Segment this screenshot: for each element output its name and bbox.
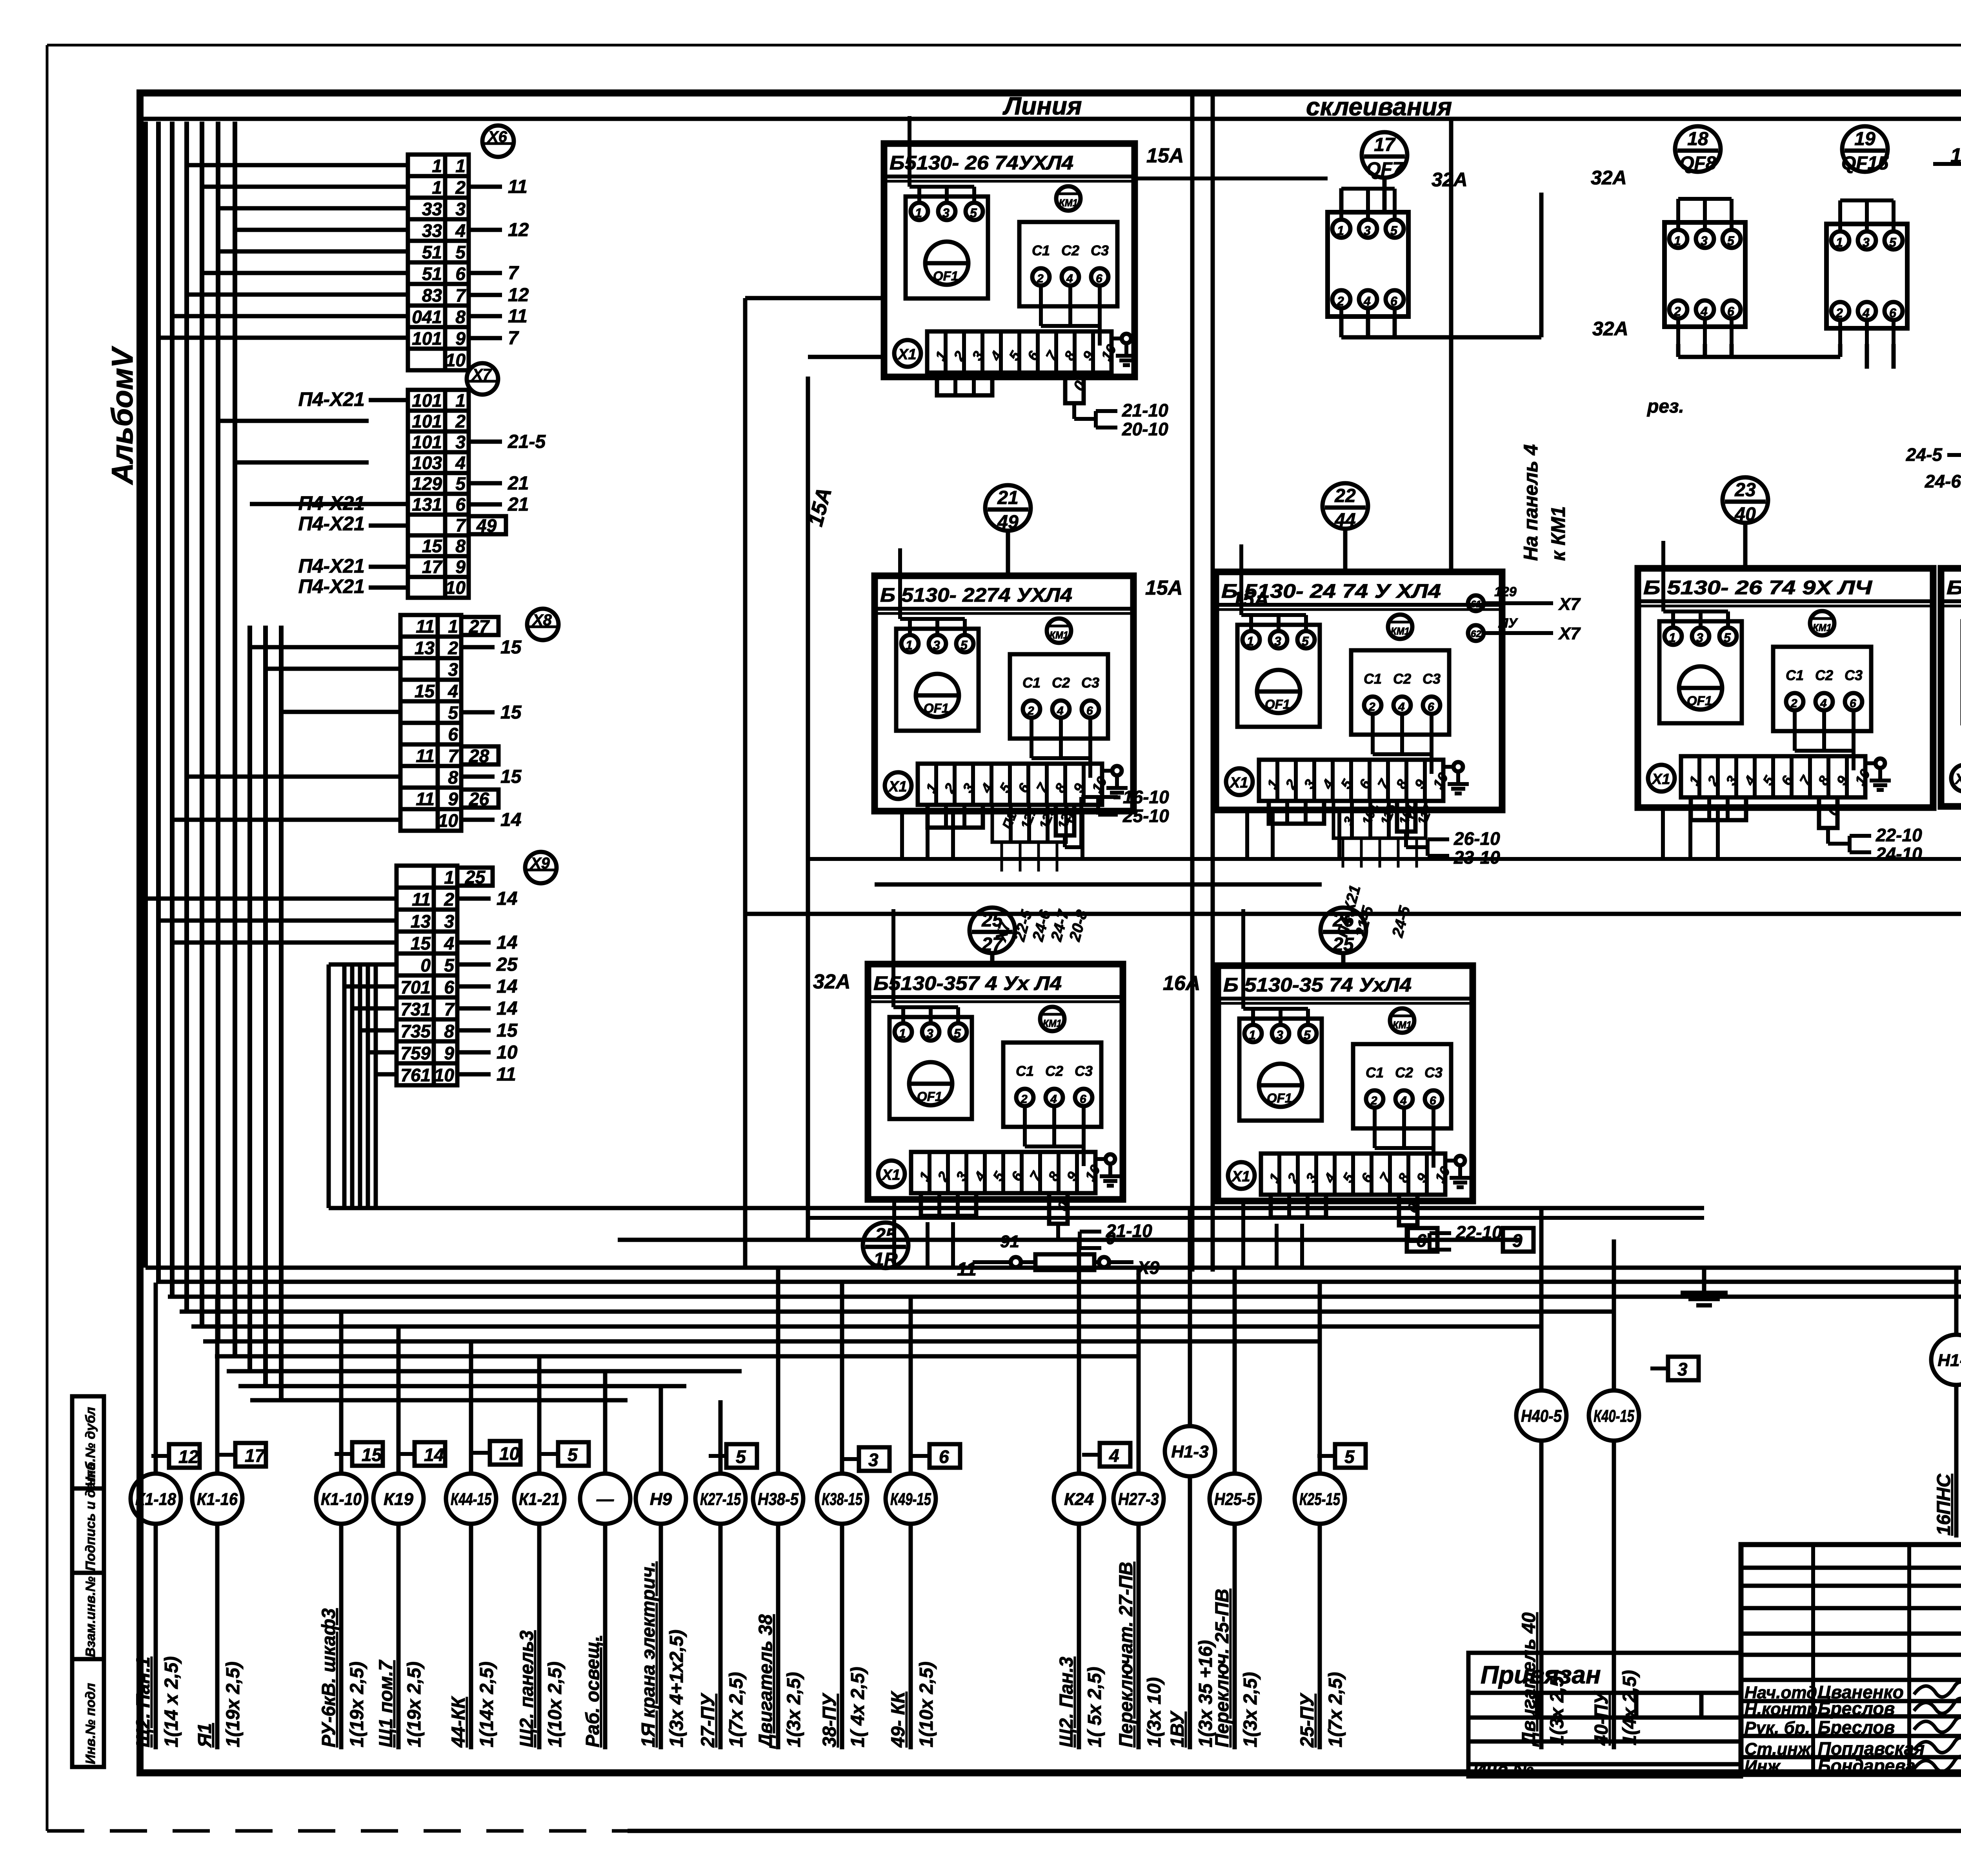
svg-text:15: 15 <box>500 702 522 723</box>
svg-text:С2: С2 <box>1393 671 1411 687</box>
svg-text:1: 1 <box>455 390 466 411</box>
svg-text:7: 7 <box>508 263 519 284</box>
svg-text:27: 27 <box>981 934 1004 955</box>
svg-text:21-5: 21-5 <box>508 431 546 452</box>
svg-text:1Я крана электрич.: 1Я крана электрич. <box>638 1561 659 1747</box>
svg-text:13: 13 <box>415 638 435 658</box>
svg-text:Н1-7: Н1-7 <box>1937 1351 1961 1370</box>
svg-text:Бондарева: Бондарева <box>1818 1756 1916 1776</box>
svg-text:101: 101 <box>412 432 442 452</box>
svg-text:КМ1: КМ1 <box>1050 629 1068 641</box>
svg-text:Н1-3: Н1-3 <box>1171 1442 1208 1461</box>
svg-text:3: 3 <box>942 206 950 220</box>
svg-text:15: 15 <box>415 681 435 701</box>
svg-text:2: 2 <box>1037 272 1044 285</box>
svg-text:6: 6 <box>448 724 458 744</box>
svg-text:4: 4 <box>448 681 458 701</box>
svg-text:Б5130-357 4 Ух Л4: Б5130-357 4 Ух Л4 <box>873 972 1062 994</box>
svg-text:11: 11 <box>416 616 435 637</box>
svg-text:С3: С3 <box>1081 675 1099 691</box>
svg-text:83: 83 <box>422 285 442 306</box>
svg-text:Щ2. Пан.3: Щ2. Пан.3 <box>1056 1657 1077 1747</box>
svg-text:24-10: 24-10 <box>1876 844 1922 864</box>
svg-text:QF1: QF1 <box>1267 1091 1292 1105</box>
svg-text:16ПНС: 16ПНС <box>1934 1473 1954 1536</box>
svg-text:5: 5 <box>736 1447 746 1467</box>
svg-text:7: 7 <box>448 746 459 766</box>
svg-text:7: 7 <box>455 285 466 306</box>
svg-text:6: 6 <box>1430 1094 1436 1107</box>
svg-text:3: 3 <box>444 911 454 932</box>
svg-text:С1: С1 <box>1022 675 1041 691</box>
svg-text:П4-Х21: П4-Х21 <box>298 555 365 577</box>
svg-text:1: 1 <box>1337 224 1344 238</box>
svg-text:1(19х 2,5): 1(19х 2,5) <box>404 1661 425 1747</box>
svg-text:Х7: Х7 <box>471 366 492 383</box>
svg-text:33: 33 <box>422 220 442 241</box>
svg-text:22: 22 <box>1334 486 1356 506</box>
svg-text:10: 10 <box>446 350 466 370</box>
svg-text:Н38-5: Н38-5 <box>758 1490 799 1509</box>
svg-text:Х7: Х7 <box>1558 595 1581 614</box>
svg-text:32А: 32А <box>1592 318 1628 340</box>
svg-text:2: 2 <box>455 411 466 431</box>
svg-text:3: 3 <box>926 1026 933 1041</box>
svg-text:731: 731 <box>400 999 431 1019</box>
svg-text:101: 101 <box>412 328 442 349</box>
svg-text:20-10: 20-10 <box>1122 419 1168 439</box>
svg-text:25-ПУ: 25-ПУ <box>1297 1692 1318 1748</box>
svg-text:3: 3 <box>1276 1028 1283 1042</box>
svg-text:к КМ1: к КМ1 <box>1547 506 1569 561</box>
svg-text:1ВУ: 1ВУ <box>1167 1710 1188 1747</box>
svg-text:9: 9 <box>448 789 458 809</box>
svg-text:1(3х 2,5): 1(3х 2,5) <box>1240 1672 1261 1747</box>
svg-text:8: 8 <box>455 307 466 327</box>
svg-text:С3: С3 <box>1423 671 1441 687</box>
svg-text:Взам.инв.№: Взам.инв.№ <box>83 1576 98 1657</box>
svg-text:26: 26 <box>469 789 489 809</box>
svg-text:П4-Х21: П4-Х21 <box>298 513 365 535</box>
svg-text:15: 15 <box>411 933 431 953</box>
svg-text:6: 6 <box>1889 306 1896 320</box>
svg-text:15: 15 <box>497 1020 518 1041</box>
svg-text:3: 3 <box>868 1450 879 1470</box>
svg-text:5: 5 <box>1302 634 1309 648</box>
svg-text:25-10: 25-10 <box>1122 806 1169 826</box>
svg-text:QF1: QF1 <box>917 1089 942 1104</box>
svg-text:16А: 16А <box>1163 972 1200 995</box>
svg-text:2: 2 <box>455 177 466 198</box>
svg-text:Б5130- 26 74УХЛ4: Б5130- 26 74УХЛ4 <box>890 152 1073 174</box>
svg-text:9: 9 <box>455 557 466 577</box>
svg-text:6: 6 <box>455 494 466 515</box>
svg-text:24-6: 24-6 <box>1925 471 1961 491</box>
svg-text:21-10: 21-10 <box>1122 400 1168 420</box>
svg-text:Ст.инж.: Ст.инж. <box>1745 1740 1815 1759</box>
svg-text:6: 6 <box>939 1447 949 1467</box>
svg-text:4: 4 <box>1109 1445 1119 1466</box>
svg-text:5: 5 <box>970 206 977 220</box>
svg-text:С2: С2 <box>1045 1063 1063 1079</box>
svg-text:6: 6 <box>455 264 466 284</box>
svg-text:5: 5 <box>568 1445 578 1465</box>
svg-text:25: 25 <box>496 954 518 975</box>
svg-text:Н25-5: Н25-5 <box>1214 1490 1255 1509</box>
svg-text:С3: С3 <box>1845 667 1863 683</box>
svg-text:5: 5 <box>1724 631 1731 645</box>
svg-text:Х1: Х1 <box>1651 771 1670 788</box>
svg-text:Х1: Х1 <box>1231 1168 1250 1185</box>
svg-text:1: 1 <box>455 156 466 176</box>
svg-text:9: 9 <box>444 1043 454 1063</box>
svg-text:14: 14 <box>424 1445 444 1465</box>
svg-text:4: 4 <box>1862 306 1870 320</box>
svg-text:1(3х 2,5): 1(3х 2,5) <box>784 1672 804 1747</box>
svg-text:5: 5 <box>1344 1447 1355 1467</box>
svg-text:2: 2 <box>1674 304 1681 318</box>
svg-text:101: 101 <box>412 390 442 411</box>
svg-text:Линия: Линия <box>1002 92 1082 120</box>
svg-text:25: 25 <box>465 867 486 887</box>
svg-text:1(7х 2,5): 1(7х 2,5) <box>1325 1672 1346 1747</box>
svg-text:Х1: Х1 <box>881 1167 900 1183</box>
svg-text:—: — <box>596 1490 614 1509</box>
svg-text:15: 15 <box>422 536 443 556</box>
svg-text:К1-18: К1-18 <box>135 1490 176 1509</box>
svg-text:5: 5 <box>960 638 968 652</box>
svg-text:С2: С2 <box>1815 667 1833 683</box>
svg-text:3: 3 <box>1696 631 1703 645</box>
svg-text:С1: С1 <box>1016 1063 1034 1079</box>
svg-text:4: 4 <box>455 220 466 241</box>
svg-text:44: 44 <box>1334 510 1355 531</box>
svg-text:5: 5 <box>455 242 466 262</box>
svg-text:ЛУ: ЛУ <box>1498 616 1518 631</box>
svg-text:49- КК: 49- КК <box>888 1690 909 1748</box>
svg-text:14: 14 <box>497 888 517 909</box>
svg-text:1(3х 4+1х2,5): 1(3х 4+1х2,5) <box>666 1630 687 1747</box>
svg-text:11: 11 <box>497 1064 516 1085</box>
svg-text:3: 3 <box>1364 224 1371 238</box>
svg-text:6: 6 <box>1086 704 1093 717</box>
svg-text:62: 62 <box>1471 629 1481 639</box>
svg-text:6: 6 <box>1390 294 1397 308</box>
svg-text:1( 5х 2,5): 1( 5х 2,5) <box>1084 1667 1105 1747</box>
svg-text:24-5: 24-5 <box>1906 444 1943 465</box>
svg-text:1( 4х 2,5): 1( 4х 2,5) <box>848 1667 868 1747</box>
svg-text:19: 19 <box>1854 129 1876 149</box>
svg-text:Инв.№ подл: Инв.№ подл <box>83 1683 98 1764</box>
svg-text:QF1: QF1 <box>924 701 949 715</box>
svg-text:Б 5130- 22 74 Ух Л4: Б 5130- 22 74 Ух Л4 <box>1946 577 1961 599</box>
svg-text:Б 5130- 26 74 9Х ЛЧ: Б 5130- 26 74 9Х ЛЧ <box>1643 577 1873 599</box>
svg-text:701: 701 <box>400 977 431 997</box>
svg-text:Х9: Х9 <box>530 855 550 872</box>
svg-text:23: 23 <box>1734 480 1756 500</box>
svg-text:27-ПУ: 27-ПУ <box>698 1692 719 1748</box>
svg-text:Н9: Н9 <box>650 1490 672 1509</box>
svg-text:3: 3 <box>1274 634 1281 648</box>
svg-text:3: 3 <box>1677 1359 1688 1379</box>
svg-text:14: 14 <box>497 976 517 997</box>
svg-text:С1: С1 <box>1364 671 1382 687</box>
svg-text:С3: С3 <box>1075 1063 1093 1079</box>
svg-text:Бреслов: Бреслов <box>1818 1698 1895 1719</box>
svg-text:6: 6 <box>1850 697 1856 710</box>
svg-text:2: 2 <box>1368 701 1375 713</box>
svg-text:К27-15: К27-15 <box>700 1490 741 1509</box>
svg-text:2: 2 <box>444 889 454 910</box>
svg-text:14: 14 <box>500 810 521 830</box>
svg-text:С2: С2 <box>1395 1064 1413 1081</box>
svg-text:Н40-5: Н40-5 <box>1521 1407 1562 1426</box>
svg-text:Переключ. 25-ПВ: Переключ. 25-ПВ <box>1212 1589 1233 1747</box>
svg-text:КМ1: КМ1 <box>1393 1019 1412 1031</box>
svg-text:735: 735 <box>400 1021 431 1041</box>
svg-text:8: 8 <box>444 1021 454 1041</box>
svg-text:49: 49 <box>997 512 1019 533</box>
svg-text:С2: С2 <box>1052 675 1070 691</box>
svg-text:11: 11 <box>508 177 528 197</box>
svg-text:12: 12 <box>178 1447 199 1467</box>
svg-text:1: 1 <box>1247 634 1254 648</box>
svg-text:3: 3 <box>448 659 458 680</box>
svg-text:QF1: QF1 <box>1265 697 1290 711</box>
svg-text:3: 3 <box>1863 235 1870 249</box>
svg-text:15: 15 <box>500 766 522 787</box>
svg-text:2: 2 <box>1835 306 1843 320</box>
svg-text:11: 11 <box>416 746 435 766</box>
svg-text:22-10: 22-10 <box>1876 825 1922 845</box>
svg-text:101: 101 <box>412 411 442 431</box>
svg-text:1: 1 <box>432 177 442 198</box>
svg-text:Инв.№: Инв.№ <box>1473 1759 1534 1780</box>
svg-text:0: 0 <box>420 955 431 975</box>
svg-text:КМ1: КМ1 <box>1043 1017 1062 1029</box>
svg-text:15А: 15А <box>1146 144 1184 167</box>
svg-text:К19: К19 <box>384 1490 414 1509</box>
svg-text:1: 1 <box>915 206 922 220</box>
svg-text:131: 131 <box>412 494 442 515</box>
svg-text:К25-15: К25-15 <box>1299 1490 1340 1509</box>
svg-text:К1-10: К1-10 <box>321 1490 362 1509</box>
svg-text:44-КК: 44-КК <box>448 1696 469 1748</box>
svg-text:Х7: Х7 <box>1558 624 1581 643</box>
svg-text:К1-16: К1-16 <box>197 1490 238 1509</box>
svg-text:7: 7 <box>444 999 455 1019</box>
svg-text:Н27-3: Н27-3 <box>1118 1490 1159 1509</box>
svg-text:Х6: Х6 <box>487 128 508 146</box>
svg-text:6: 6 <box>444 977 454 997</box>
svg-text:1(14 х 2,5): 1(14 х 2,5) <box>161 1656 182 1747</box>
svg-text:11: 11 <box>508 306 528 327</box>
svg-text:041: 041 <box>412 307 442 327</box>
svg-text:АльбомV: АльбомV <box>106 346 139 485</box>
svg-text:4: 4 <box>1050 1093 1057 1106</box>
svg-text:21: 21 <box>997 488 1018 508</box>
svg-text:Щ2. Пан.1: Щ2. Пан.1 <box>133 1657 154 1747</box>
svg-text:1: 1 <box>444 867 454 888</box>
svg-text:С2: С2 <box>1061 242 1079 258</box>
svg-text:1: 1 <box>1836 235 1843 249</box>
svg-text:5: 5 <box>448 702 458 723</box>
svg-text:2: 2 <box>1027 704 1034 717</box>
svg-text:8: 8 <box>448 767 458 788</box>
svg-text:рез.: рез. <box>1646 396 1684 417</box>
svg-text:QF1: QF1 <box>933 269 958 283</box>
svg-text:5: 5 <box>954 1026 961 1041</box>
svg-text:21: 21 <box>508 473 529 494</box>
svg-text:1(7х 2,5): 1(7х 2,5) <box>726 1672 747 1747</box>
svg-text:27: 27 <box>469 616 490 637</box>
svg-text:6: 6 <box>1096 272 1102 285</box>
svg-text:18: 18 <box>1687 129 1708 149</box>
svg-text:51: 51 <box>422 264 442 284</box>
svg-text:10: 10 <box>446 577 466 598</box>
svg-text:Х1: Х1 <box>897 346 916 363</box>
svg-text:10: 10 <box>434 1065 455 1085</box>
svg-text:15: 15 <box>362 1445 382 1465</box>
svg-text:761: 761 <box>400 1065 431 1085</box>
svg-text:1(10х 2,5): 1(10х 2,5) <box>545 1661 566 1747</box>
svg-text:Раб. освещ.: Раб. освещ. <box>582 1636 603 1747</box>
svg-text:10: 10 <box>497 1042 518 1063</box>
svg-text:759: 759 <box>400 1043 431 1063</box>
svg-text:2: 2 <box>1021 1093 1028 1106</box>
svg-text:13: 13 <box>411 911 431 932</box>
svg-text:8: 8 <box>455 536 466 556</box>
svg-text:К40-15: К40-15 <box>1594 1407 1634 1426</box>
svg-text:5: 5 <box>444 955 455 975</box>
svg-text:6: 6 <box>1727 304 1734 318</box>
svg-text:Х1: Х1 <box>888 779 907 795</box>
svg-text:14: 14 <box>497 932 517 953</box>
svg-text:6: 6 <box>1416 1230 1426 1251</box>
svg-text:5: 5 <box>1889 235 1897 249</box>
svg-text:С1: С1 <box>1786 667 1804 683</box>
svg-text:Инж.: Инж. <box>1745 1757 1785 1776</box>
svg-text:Х8: Х8 <box>532 611 552 629</box>
svg-text:17: 17 <box>1374 135 1396 155</box>
svg-text:РУ-6кВ. шкаф3: РУ-6кВ. шкаф3 <box>318 1608 339 1747</box>
svg-text:1(3х 10): 1(3х 10) <box>1144 1677 1165 1747</box>
svg-text:Рук. бр.: Рук. бр. <box>1745 1718 1810 1738</box>
svg-text:QF1: QF1 <box>1687 693 1712 708</box>
svg-text:КМ1: КМ1 <box>1059 197 1078 209</box>
svg-text:6: 6 <box>1080 1093 1086 1106</box>
svg-text:11: 11 <box>416 789 435 809</box>
svg-text:15: 15 <box>500 637 522 658</box>
svg-text:Двигатель 38: Двигатель 38 <box>755 1614 776 1749</box>
svg-text:10: 10 <box>499 1443 520 1464</box>
svg-text:103: 103 <box>412 453 442 473</box>
svg-text:1: 1 <box>432 156 442 176</box>
svg-text:Н.контр.: Н.контр. <box>1745 1699 1822 1719</box>
svg-text:16-10: 16-10 <box>1123 787 1169 807</box>
svg-text:26-10: 26-10 <box>1453 828 1500 849</box>
svg-text:Подпись и дата: Подпись и дата <box>83 1463 98 1571</box>
svg-text:Бреслов: Бреслов <box>1818 1717 1895 1738</box>
svg-text:1: 1 <box>448 616 458 637</box>
svg-text:Я1: Я1 <box>195 1723 215 1748</box>
svg-text:6: 6 <box>1428 701 1434 713</box>
svg-text:2: 2 <box>1370 1094 1377 1107</box>
svg-text:Б 5130-35 74 УхЛ4: Б 5130-35 74 УхЛ4 <box>1223 974 1412 996</box>
svg-text:С3: С3 <box>1424 1064 1443 1081</box>
svg-text:2: 2 <box>448 638 458 658</box>
svg-text:1: 1 <box>1669 631 1676 645</box>
svg-text:38-ПУ: 38-ПУ <box>819 1692 840 1747</box>
svg-text:4: 4 <box>1700 304 1708 318</box>
svg-text:Б 5130- 2274 УХЛ4: Б 5130- 2274 УХЛ4 <box>880 584 1072 606</box>
svg-text:QF15: QF15 <box>1841 153 1889 174</box>
svg-text:4: 4 <box>1400 1094 1407 1107</box>
svg-text:4: 4 <box>1398 701 1405 713</box>
svg-text:Щ1 пом.7: Щ1 пом.7 <box>376 1659 397 1747</box>
svg-text:3: 3 <box>933 638 940 652</box>
svg-text:3: 3 <box>455 432 466 452</box>
svg-text:7: 7 <box>455 515 466 535</box>
svg-text:2: 2 <box>1790 697 1797 710</box>
svg-text:5: 5 <box>1727 234 1735 248</box>
svg-text:1(14х 2,5): 1(14х 2,5) <box>477 1661 497 1747</box>
svg-text:11: 11 <box>412 889 431 910</box>
svg-text:28: 28 <box>469 746 489 766</box>
svg-text:61: 61 <box>1471 599 1481 610</box>
svg-text:17: 17 <box>422 557 443 577</box>
svg-text:4: 4 <box>1820 697 1827 710</box>
svg-text:На панель 4: На панель 4 <box>1520 444 1542 561</box>
svg-text:1(19х 2,5): 1(19х 2,5) <box>347 1661 367 1747</box>
svg-text:32А: 32А <box>1591 167 1627 189</box>
svg-text:Х1: Х1 <box>1229 775 1248 791</box>
svg-text:4: 4 <box>444 933 454 953</box>
svg-text:32А: 32А <box>813 970 850 993</box>
svg-text:12: 12 <box>508 285 529 306</box>
svg-text:П4-Х21: П4-Х21 <box>298 575 365 597</box>
svg-text:4: 4 <box>1066 272 1073 285</box>
svg-text:40: 40 <box>1734 504 1756 525</box>
svg-text:12: 12 <box>508 220 529 240</box>
svg-text:К49-15: К49-15 <box>890 1490 931 1509</box>
svg-text:С1: С1 <box>1032 242 1050 258</box>
svg-text:25: 25 <box>1332 934 1354 955</box>
svg-text:3: 3 <box>1701 234 1708 248</box>
svg-text:7: 7 <box>508 328 519 349</box>
svg-text:3: 3 <box>455 199 466 219</box>
svg-text:С3: С3 <box>1091 242 1109 258</box>
svg-text:15А: 15А <box>1232 588 1269 611</box>
svg-text:14: 14 <box>497 998 517 1019</box>
svg-text:10: 10 <box>438 810 458 831</box>
svg-text:9: 9 <box>455 328 466 349</box>
svg-text:17: 17 <box>245 1445 266 1466</box>
svg-text:С1: С1 <box>1366 1064 1384 1081</box>
svg-text:4: 4 <box>455 453 466 473</box>
svg-text:5: 5 <box>1304 1028 1311 1042</box>
svg-text:К1-21: К1-21 <box>519 1490 560 1509</box>
svg-text:5: 5 <box>455 473 466 494</box>
svg-text:21: 21 <box>508 494 529 515</box>
svg-text:К38-15: К38-15 <box>822 1490 862 1509</box>
svg-text:Щ2. панель3: Щ2. панель3 <box>517 1630 537 1747</box>
svg-text:QF7: QF7 <box>1366 159 1404 180</box>
svg-text:1: 1 <box>1674 234 1681 248</box>
svg-text:5: 5 <box>1390 224 1398 238</box>
svg-text:129: 129 <box>1494 584 1517 599</box>
svg-text:К44-15: К44-15 <box>451 1490 491 1509</box>
